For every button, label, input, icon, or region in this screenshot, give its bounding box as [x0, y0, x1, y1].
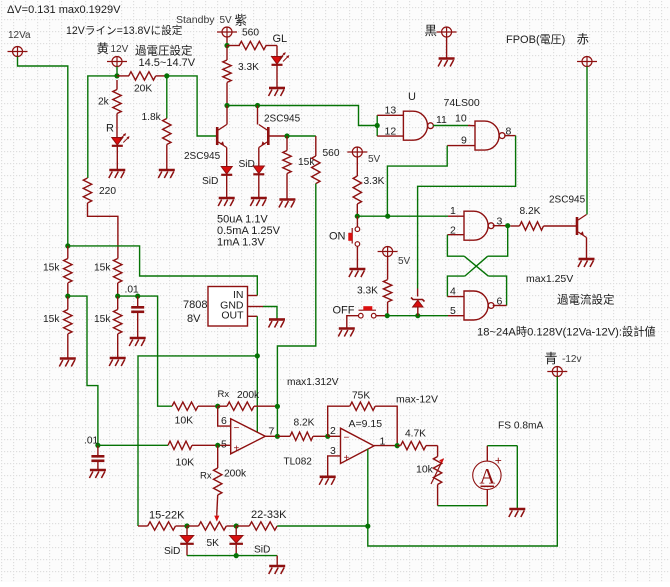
svg-text:2SC945: 2SC945	[549, 195, 586, 206]
wire rail to regulator IN	[68, 246, 257, 296]
svg-text:max1.25V: max1.25V	[526, 273, 573, 285]
svg-text:紫: 紫	[235, 14, 248, 28]
svg-text:SiD: SiD	[239, 159, 255, 170]
ground below black port	[438, 59, 455, 67]
svg-text:過電流設定: 過電流設定	[557, 293, 615, 307]
pin 8 output	[504, 126, 515, 138]
svg-text:.01: .01	[125, 285, 139, 296]
NAND gate U1d	[464, 291, 494, 320]
svg-text:1mA 1.3V: 1mA 1.3V	[217, 236, 265, 248]
svg-text:5K: 5K	[207, 538, 220, 549]
node junction right of 5K	[234, 523, 239, 528]
pin 1 output	[374, 436, 397, 448]
pin 12	[377, 126, 403, 138]
svg-text:3.3K: 3.3K	[364, 176, 385, 187]
svg-text:黄: 黄	[97, 42, 110, 56]
svg-text:3.3K: 3.3K	[357, 286, 378, 297]
wire Q3 emitter to ground	[586, 238, 588, 260]
wire collector bus to NAND U inputs	[227, 106, 377, 126]
svg-text:15-22K: 15-22K	[149, 510, 185, 522]
note: IC designator U 74LS00	[408, 91, 480, 109]
pin 4	[447, 286, 464, 298]
resistor 15k (divider A lower)	[43, 296, 72, 358]
svg-text:14.5~14.7V: 14.5~14.7V	[139, 57, 196, 69]
switch OFF (momentary)	[333, 305, 385, 329]
ground below .01 input filter	[89, 470, 106, 478]
svg-text:20K: 20K	[134, 84, 152, 95]
note: max1.312V	[287, 377, 339, 388]
node junction latch reset diode	[415, 313, 420, 318]
svg-text:Rx: Rx	[218, 389, 230, 400]
node junction op-amp2 output	[395, 443, 400, 448]
resistor 220	[83, 178, 116, 203]
pin 13	[377, 105, 403, 117]
svg-text:12Va: 12Va	[8, 30, 31, 41]
op-amp U2a TL082	[231, 419, 313, 468]
svg-text:6: 6	[221, 415, 227, 427]
svg-text:4: 4	[450, 286, 456, 298]
ground below Q1 SiD	[218, 198, 235, 206]
resistor Rx 200k (feedback)	[218, 389, 278, 410]
wiper arrow to 5K	[214, 495, 219, 522]
variable resistor 10k	[416, 446, 444, 506]
node junction NAND1 inputs	[375, 115, 380, 136]
pin 1	[450, 205, 456, 217]
svg-text:22-33K: 22-33K	[251, 509, 287, 521]
resistor Rx 200k (to wiper)	[200, 445, 247, 495]
wire 10k to ammeter	[438, 489, 488, 505]
node junction gate3 output	[505, 223, 510, 228]
svg-text:15k: 15k	[94, 263, 111, 274]
op-amp U2b TL082	[341, 428, 375, 464]
pin 6 stub	[218, 406, 231, 427]
note: diode current/voltage table	[217, 214, 281, 249]
resistor 10K (non-inverting input)	[168, 441, 218, 468]
transistor Q2 2SC945	[259, 114, 301, 148]
resistor 1.8k	[142, 112, 172, 170]
svg-text:2SC945: 2SC945	[264, 114, 301, 125]
wire divider B net to 10K (inverting input)	[138, 296, 172, 406]
svg-text:-12v: -12v	[562, 354, 581, 365]
svg-text:10: 10	[455, 113, 467, 125]
svg-text:7808: 7808	[183, 299, 207, 311]
ground below 15k	[279, 200, 296, 208]
ground below LED GL	[269, 88, 286, 96]
port 5V (gate enable)	[347, 147, 380, 176]
port Standby 5V (purple)	[176, 14, 247, 46]
svg-text:OUT: OUT	[221, 310, 244, 322]
ground below Q2 SiD	[250, 198, 266, 206]
svg-text:+: +	[234, 444, 240, 455]
pin 5 (gate4)	[450, 305, 456, 317]
node junction below Standby port	[224, 43, 229, 48]
svg-text:200k: 200k	[224, 469, 247, 480]
svg-text:3.3K: 3.3K	[238, 62, 259, 73]
NAND gate U1a	[403, 111, 433, 140]
svg-text:12V: 12V	[111, 44, 129, 55]
svg-text:青: 青	[545, 351, 558, 366]
wire 20K node to Q1 base	[167, 76, 216, 136]
note: max1.25V	[526, 273, 573, 285]
node junction op-amp2 pin2	[325, 434, 330, 439]
svg-text:FS 0.8mA: FS 0.8mA	[498, 421, 543, 432]
node junction 8V rail	[255, 353, 260, 358]
wire 12V port to node	[116, 67, 118, 76]
resistor 15k (divider B lower)	[94, 296, 122, 358]
svg-text:5V: 5V	[398, 256, 411, 267]
wire divider B to .01 capacitor	[118, 294, 141, 299]
svg-text:15k: 15k	[43, 263, 60, 274]
svg-text:2k: 2k	[98, 97, 110, 108]
resistor 3.3K (pull-up 2)	[357, 280, 392, 316]
diode SiD (clamp left)	[164, 526, 194, 557]
ground below OFF switch	[338, 329, 355, 337]
svg-text:−: −	[344, 433, 350, 444]
wire gate1 out to gate2 in	[433, 125, 475, 127]
pin 5 stub	[98, 439, 231, 451]
pin GND stub and ground	[248, 307, 286, 328]
node junction divider A	[65, 294, 70, 299]
svg-text:黒: 黒	[425, 24, 438, 38]
port FPOB (red)	[506, 33, 597, 67]
resistor 3.3K (pull-up 1)	[353, 176, 385, 216]
pin 4 V- stub	[367, 449, 369, 526]
svg-text:赤: 赤	[577, 33, 590, 47]
svg-text:8.2K: 8.2K	[294, 418, 315, 429]
port 5V (gate disable)	[378, 247, 411, 280]
capacitor .01 (divider B filter)	[125, 285, 145, 339]
port 12V (yellow)	[97, 42, 129, 67]
wire 22-33K to -12V net	[277, 525, 368, 527]
node junction inverting input	[215, 404, 220, 409]
capacitor .01 (input filter)	[84, 436, 104, 471]
svg-text:12Vライン=13.8Vに設定: 12Vライン=13.8Vに設定	[66, 24, 183, 37]
wire gate2 output to latch diode	[418, 136, 516, 289]
pin 2	[447, 225, 464, 237]
ground below 1.8k	[158, 170, 175, 178]
svg-text:10k: 10k	[416, 464, 434, 476]
port 12Va	[8, 30, 32, 57]
svg-text:220: 220	[99, 186, 116, 197]
svg-text:75K: 75K	[352, 391, 370, 402]
svg-text:Rx: Rx	[200, 471, 212, 482]
ground below .01 capacitor	[129, 338, 146, 346]
note: overvoltage setting annotation	[135, 44, 196, 70]
node junction Q1 collector	[224, 103, 229, 125]
svg-text:過電圧設定: 過電圧設定	[135, 44, 193, 58]
resistor 8.2K (interstage)	[277, 418, 327, 441]
pin 7 output	[265, 426, 280, 439]
ground below ammeter return	[509, 509, 526, 517]
wire 12V rail left segment	[88, 76, 117, 178]
wire pin9 to gate3 input node	[387, 146, 447, 217]
svg-text:8V: 8V	[187, 313, 201, 325]
svg-text:200k: 200k	[237, 390, 260, 401]
resistor 560 (GL series)	[227, 28, 277, 50]
svg-text:1: 1	[450, 205, 456, 217]
pin 10	[455, 113, 467, 125]
ground below pin 3	[319, 477, 336, 485]
svg-text:18~24A時0.128V(12Va-12V):設計値: 18~24A時0.128V(12Va-12V):設計値	[477, 325, 656, 339]
resistor 22-33K	[236, 509, 287, 530]
ammeter M1	[473, 454, 502, 490]
svg-text:SiD: SiD	[164, 546, 180, 557]
transistor Q1 2SC945	[184, 125, 227, 163]
resistor 15k (Q2 base load)	[283, 136, 316, 200]
pin OUT stub	[248, 315, 258, 317]
NAND gate U1c	[464, 211, 494, 240]
svg-text:+: +	[344, 453, 350, 464]
pin 3 output	[493, 216, 508, 228]
wire 560 down to op-amp output net	[277, 184, 315, 407]
resistor 2k	[98, 80, 121, 138]
wire gate4 pin5 net	[387, 315, 464, 317]
svg-text:ΔV=0.131 max0.1929V: ΔV=0.131 max0.1929V	[7, 4, 121, 16]
switch ON (momentary)	[329, 216, 360, 269]
pin 11 output	[436, 114, 447, 126]
pin 3 stub	[328, 445, 341, 477]
svg-text:8.2K: 8.2K	[520, 206, 541, 217]
svg-text:A=9.15: A=9.15	[349, 418, 383, 430]
wire gate3 pin1 net	[357, 215, 464, 217]
resistor 8.2K (Q3 base)	[510, 206, 576, 230]
svg-text:.01: .01	[84, 436, 98, 447]
ground below LED R	[109, 170, 126, 178]
svg-text:GL: GL	[273, 33, 288, 45]
node junction Q2 collector	[255, 103, 260, 125]
svg-text:11: 11	[436, 114, 447, 126]
wire OUT 8V rail down	[256, 316, 258, 432]
svg-text:5V: 5V	[220, 15, 233, 26]
resistor 560 (to op-amp output)	[312, 136, 340, 184]
node junction pull-up 1	[355, 214, 360, 219]
svg-text:10K: 10K	[175, 415, 194, 427]
svg-text:SiD: SiD	[254, 545, 270, 556]
potentiometer 5K	[187, 522, 236, 549]
wire Q2 base node	[270, 133, 316, 138]
ground bottom clamp	[269, 566, 286, 574]
node junction at 12V rail	[114, 73, 119, 78]
svg-text:9: 9	[461, 135, 467, 147]
svg-text:max-12V: max-12V	[396, 394, 438, 406]
svg-text:560: 560	[242, 28, 259, 39]
transistor Q3 2SC945	[549, 195, 587, 238]
ground below ON switch	[349, 269, 366, 277]
resistor 4.7K	[397, 429, 437, 450]
wire red port to Q3 collector	[586, 67, 588, 215]
pin 9	[447, 135, 475, 147]
wire Q1 emitter to diode	[226, 148, 228, 167]
wire Q2 emitter to diode	[258, 148, 260, 167]
regulator U3 7808	[183, 287, 248, 327]
wire ammeter to ground	[487, 446, 517, 509]
svg-text:TL082: TL082	[284, 457, 313, 468]
wire 12Va to main vertical rail	[18, 57, 68, 246]
svg-text:74LS00: 74LS00	[444, 97, 480, 109]
port GND (black)	[425, 24, 457, 59]
node junction -12V net	[365, 524, 370, 529]
resistor 15k (divider A upper)	[43, 246, 72, 296]
pin IN stub	[248, 295, 258, 297]
svg-text:max1.312V: max1.312V	[287, 377, 339, 388]
resistor 15-22K	[138, 510, 187, 531]
svg-text:Standby: Standby	[176, 14, 215, 26]
diode SiD (Q1 emitter)	[202, 167, 232, 199]
resistor 3.3K (standby pull)	[223, 46, 259, 106]
svg-text:2SC945: 2SC945	[184, 151, 221, 162]
wire 8V rail to bottom resistor chain	[138, 356, 257, 526]
svg-text:4.7K: 4.7K	[405, 429, 426, 440]
node junction 12Va rail to 7808	[65, 243, 70, 248]
resistor 15k (divider B upper)	[94, 259, 122, 297]
diode SiD (clamp right)	[229, 526, 270, 556]
svg-text:560: 560	[323, 148, 340, 159]
node junction non-inverting input	[215, 443, 220, 448]
diode SiD (Q2 emitter)	[239, 159, 265, 198]
node junction left of 5K	[184, 523, 189, 528]
note: 12V line setting annotation	[66, 24, 183, 37]
LED R (red indicator)	[106, 123, 129, 171]
svg-text:5V: 5V	[368, 154, 381, 165]
svg-text:ON: ON	[329, 231, 346, 243]
node junction pin9 tap	[385, 214, 390, 219]
LED GL (green indicator)	[272, 33, 290, 88]
node junction .01 cap 2	[95, 443, 100, 448]
note: max-12V	[396, 394, 438, 406]
svg-text:−: −	[234, 423, 240, 434]
wire 20K node down to 1.8k	[166, 76, 168, 119]
note: FS 0.8mA	[498, 421, 543, 432]
svg-text:15k: 15k	[43, 314, 60, 325]
svg-text:OFF: OFF	[333, 305, 355, 317]
svg-text:5: 5	[221, 439, 227, 451]
node junction feedback	[275, 404, 280, 437]
svg-text:1.8k: 1.8k	[142, 112, 162, 123]
ground below Q3	[578, 259, 595, 267]
wire 220 to 15k ladder	[88, 203, 118, 259]
svg-text:5: 5	[450, 305, 456, 317]
svg-text:50uA 1.1V: 50uA 1.1V	[217, 214, 268, 226]
pin 2 stub	[328, 425, 341, 437]
svg-text:A: A	[479, 464, 495, 489]
node junction right of 20K	[164, 73, 169, 78]
svg-text:U: U	[408, 91, 416, 103]
svg-text:FPOB(電圧): FPOB(電圧)	[506, 33, 565, 46]
note: design value annotation	[477, 325, 656, 339]
node junction pull-up 2	[385, 313, 390, 318]
note: gain A=9.15	[349, 418, 383, 430]
resistor 10K (inverting input)	[172, 402, 218, 427]
svg-text:SiD: SiD	[202, 176, 218, 187]
svg-text:R: R	[106, 123, 114, 135]
svg-text:+: +	[495, 454, 502, 468]
svg-text:10K: 10K	[176, 457, 195, 469]
wire -12V rail	[368, 377, 558, 547]
resistor 75K (feedback 2)	[328, 391, 398, 446]
wire divider A net to .01 and 10K (non-inverting)	[68, 296, 98, 445]
port -12V (blue)	[545, 351, 582, 377]
wire latch cross-coupling	[447, 226, 507, 306]
svg-text:2: 2	[330, 425, 336, 437]
svg-text:0.5mA 1.25V: 0.5mA 1.25V	[217, 225, 281, 237]
ground below divider B	[109, 358, 126, 366]
resistor 20K	[117, 72, 167, 95]
wire diode commons to ground	[187, 553, 277, 566]
note: overcurrent setting	[557, 293, 615, 307]
pin 6 output	[493, 296, 507, 308]
svg-text:15k: 15k	[94, 314, 111, 325]
diode (zener) latch reset	[411, 289, 425, 316]
NAND gate U1b	[475, 121, 505, 150]
ground below divider A	[59, 359, 76, 367]
note: delta-V annotation	[7, 4, 121, 16]
node junction divider B	[115, 294, 120, 299]
